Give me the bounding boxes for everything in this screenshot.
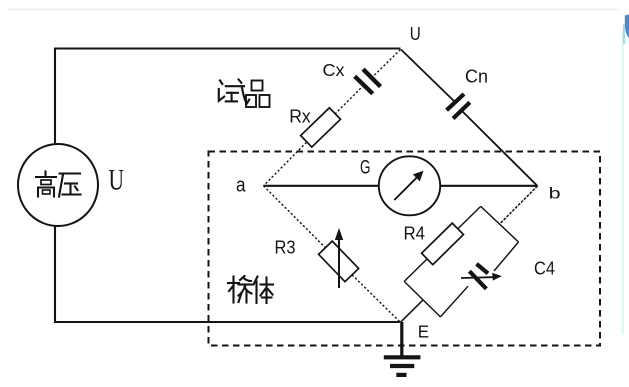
wire U to Cx (dashed)	[372, 50, 401, 79]
wire U to Cn	[401, 50, 456, 103]
bridge body outline (dashed box)	[209, 152, 601, 346]
label 桥体	[228, 276, 273, 303]
svg-text:E: E	[418, 322, 429, 342]
svg-text:Cn: Cn	[465, 67, 488, 87]
resistor R3 (variable)	[319, 228, 359, 288]
wire a to R3 (dashed)	[264, 186, 326, 248]
svg-text:U: U	[109, 164, 125, 197]
wire a to galvanometer	[264, 185, 380, 187]
svg-text:R4: R4	[404, 224, 426, 244]
voltage source 高压	[18, 144, 98, 226]
label 试品	[219, 80, 270, 108]
node E junction	[400, 300, 423, 323]
svg-text:a: a	[236, 174, 246, 196]
ground	[384, 322, 421, 375]
wire source to ground	[55, 226, 400, 322]
wire Cn to node b	[462, 111, 538, 187]
capacitor Cn	[447, 94, 470, 119]
resistor Rx	[301, 108, 341, 147]
wire Rx to node a (dashed)	[264, 142, 307, 186]
svg-text:Rx: Rx	[289, 106, 311, 126]
parallel block frame R4 C4	[404, 206, 518, 317]
capacitor Cx	[355, 69, 381, 94]
svg-text:U: U	[410, 24, 421, 44]
wire source to node U	[55, 49, 401, 145]
svg-text:C4: C4	[534, 259, 555, 279]
wire Cx to Rx (dashed)	[335, 85, 364, 114]
svg-text:G: G	[360, 157, 371, 179]
wire galvanometer to b	[440, 185, 537, 187]
wire R3 to E (dashed)	[352, 275, 400, 323]
svg-text:Cx: Cx	[323, 60, 345, 80]
capacitor C4 (variable)	[461, 264, 502, 289]
svg-text:b: b	[549, 186, 561, 203]
resistor R4	[422, 223, 464, 265]
galvanometer G	[379, 156, 440, 215]
wire b to parallel block	[500, 186, 538, 224]
svg-text:R3: R3	[275, 238, 296, 258]
